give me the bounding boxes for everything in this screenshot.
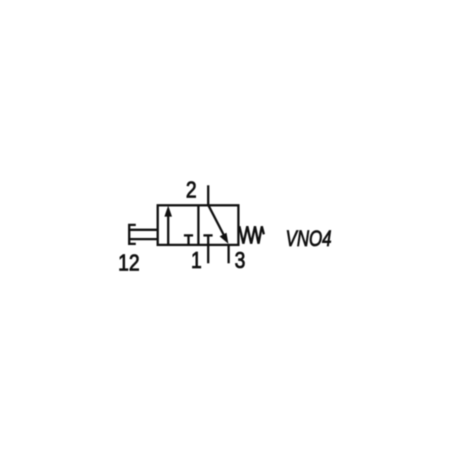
pilot plunger stem top — [129, 229, 158, 231]
arrowhead up — [164, 206, 172, 217]
svg-text:12: 12 — [118, 251, 139, 276]
port 2 stub — [207, 185, 209, 205]
svg-text:2: 2 — [186, 178, 197, 203]
flow path 2-3 diagonal (right square, rest position) — [208, 205, 225, 238]
arrowhead to port 3 — [220, 233, 229, 244]
port 3 stub — [227, 245, 229, 263]
svg-text:VNO4: VNO4 — [286, 227, 332, 252]
port 1 stub — [207, 245, 209, 263]
flow arrow 1-2 (left square, actuated position) — [167, 215, 169, 245]
valve body V1 (two-position 3/2 valve envelope) — [158, 205, 239, 245]
pilot plunger cap bracket — [129, 225, 136, 244]
position divider — [197, 205, 199, 245]
svg-text:1: 1 — [191, 249, 202, 274]
blocked port 1 symbol (right square T) — [207, 235, 209, 245]
blocked port 3 symbol (left square T) — [187, 235, 189, 245]
svg-text:3: 3 — [235, 249, 246, 274]
return spring — [239, 226, 264, 243]
pilot plunger stem bottom — [129, 238, 158, 240]
